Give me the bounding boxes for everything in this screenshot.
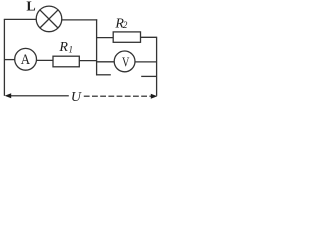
- wire R2 to right vertical: [141, 36, 157, 38]
- ammeter A: [15, 48, 37, 70]
- wire voltmeter to right vertical: [135, 61, 157, 63]
- svg-text:L: L: [26, 0, 35, 15]
- lamp L: [36, 6, 62, 32]
- wire R2 branch left: [97, 37, 114, 39]
- svg-text:2: 2: [123, 20, 128, 30]
- resistor R2: [113, 32, 140, 42]
- wire left vertical: [3, 19, 5, 95]
- wire top right segment: [62, 19, 97, 21]
- wire bottom-right stub: [141, 75, 156, 77]
- wire bottom-left stub: [96, 74, 111, 76]
- wire ammeter to R1: [37, 59, 54, 61]
- svg-text:U: U: [71, 90, 82, 103]
- svg-text:R: R: [58, 40, 68, 55]
- wire right vertical: [156, 37, 158, 96]
- wire middle vertical: [96, 19, 98, 75]
- voltage arrow U right dashed with arrowhead: [84, 94, 158, 99]
- voltage arrow U left solid with arrowhead: [5, 93, 69, 98]
- svg-text:A: A: [21, 52, 30, 68]
- svg-text:V: V: [122, 56, 129, 71]
- svg-text:1: 1: [69, 45, 74, 55]
- wire R1 to middle vertical: [79, 60, 96, 62]
- voltmeter V: [114, 51, 135, 72]
- wire ammeter branch from left vertical: [4, 59, 14, 61]
- wire top left segment: [4, 18, 36, 20]
- wire voltmeter branch left: [97, 61, 115, 63]
- resistor R1: [53, 56, 79, 67]
